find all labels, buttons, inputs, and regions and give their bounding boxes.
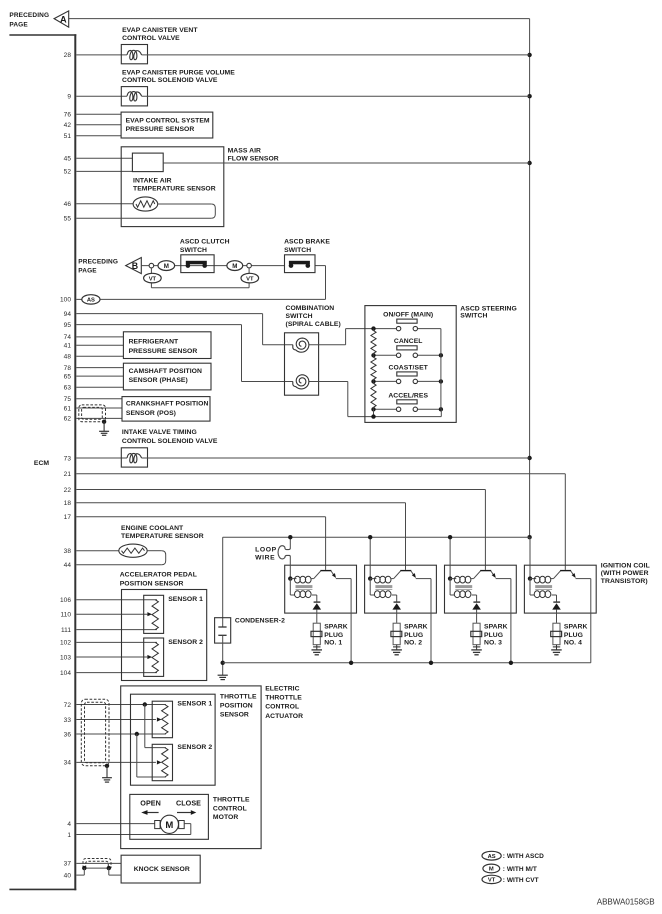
svg-text:ELECTRIC: ELECTRIC (265, 685, 299, 692)
svg-text:73: 73 (64, 455, 72, 462)
svg-text:22: 22 (64, 487, 72, 494)
svg-text:EVAP CONTROL SYSTEM: EVAP CONTROL SYSTEM (126, 118, 210, 125)
svg-text:THROTTLE: THROTTLE (220, 693, 257, 700)
svg-text:MASS AIR: MASS AIR (228, 147, 261, 154)
svg-text:SENSOR 2: SENSOR 2 (177, 744, 212, 751)
svg-text:17: 17 (64, 514, 72, 521)
svg-text:9: 9 (67, 94, 71, 101)
svg-text:46: 46 (64, 201, 72, 208)
svg-text:55: 55 (64, 215, 72, 222)
svg-text:M: M (489, 867, 494, 873)
svg-text:EVAP CANISTER VENT: EVAP CANISTER VENT (122, 27, 198, 34)
svg-text:COAST/SET: COAST/SET (389, 365, 429, 372)
svg-text:28: 28 (64, 52, 72, 59)
svg-text:CONDENSER-2: CONDENSER-2 (235, 618, 285, 625)
svg-text:ASCD BRAKE: ASCD BRAKE (284, 239, 330, 246)
svg-text:78: 78 (64, 365, 72, 372)
svg-text:TEMPERATURE SENSOR: TEMPERATURE SENSOR (133, 186, 216, 193)
svg-text:SWITCH: SWITCH (286, 313, 313, 320)
svg-text:CONTROL VALVE: CONTROL VALVE (122, 35, 180, 42)
svg-text:PRECEDING: PRECEDING (9, 12, 49, 19)
svg-text:CAMSHAFT POSITION: CAMSHAFT POSITION (129, 368, 202, 375)
svg-text:ABBWA0158GB: ABBWA0158GB (597, 898, 655, 907)
svg-text:37: 37 (64, 861, 72, 868)
svg-text:52: 52 (64, 169, 72, 176)
svg-text:65: 65 (64, 373, 72, 380)
svg-text:B: B (132, 261, 138, 271)
svg-text:76: 76 (64, 112, 72, 119)
svg-text:SPARK: SPARK (404, 623, 428, 630)
svg-text:PRECEDING: PRECEDING (78, 259, 118, 266)
svg-text:TEMPERATURE SENSOR: TEMPERATURE SENSOR (121, 533, 204, 540)
svg-text:95: 95 (64, 322, 72, 329)
svg-text:TRANSISTOR): TRANSISTOR) (601, 578, 648, 585)
svg-text:SPARK: SPARK (564, 623, 588, 630)
svg-text:AS: AS (488, 854, 496, 860)
svg-text:PLUG: PLUG (484, 632, 503, 639)
svg-text:103: 103 (60, 654, 71, 661)
svg-text:ACCELERATOR PEDAL: ACCELERATOR PEDAL (120, 571, 197, 578)
svg-text:ECM: ECM (34, 460, 50, 467)
svg-text:110: 110 (60, 612, 71, 619)
svg-text:AS: AS (87, 298, 95, 304)
svg-text:(WITH POWER: (WITH POWER (601, 570, 649, 577)
svg-text:1: 1 (67, 832, 71, 839)
svg-text:ASCD STEERING: ASCD STEERING (460, 305, 517, 312)
svg-text:SPARK: SPARK (324, 623, 348, 630)
svg-text:106: 106 (60, 597, 71, 604)
svg-text:51: 51 (64, 133, 72, 140)
svg-text:SENSOR 1: SENSOR 1 (177, 700, 212, 707)
svg-text:36: 36 (64, 731, 72, 738)
svg-text:VT: VT (488, 878, 496, 884)
svg-text:SWITCH: SWITCH (460, 313, 487, 320)
svg-text:M: M (164, 263, 169, 270)
svg-text:A: A (60, 14, 67, 24)
svg-text:CONTROL SOLENOID VALVE: CONTROL SOLENOID VALVE (122, 438, 218, 445)
svg-text:COMBINATION: COMBINATION (286, 305, 335, 312)
svg-text:INTAKE AIR: INTAKE AIR (133, 178, 172, 185)
svg-text:38: 38 (64, 548, 72, 555)
svg-text:ACCEL/RES: ACCEL/RES (388, 393, 428, 400)
svg-text:4: 4 (67, 821, 71, 828)
svg-text:18: 18 (64, 500, 72, 507)
svg-text:: WITH CVT: : WITH CVT (503, 877, 539, 884)
svg-text:PLUG: PLUG (324, 632, 343, 639)
svg-text:WIRE: WIRE (255, 555, 275, 562)
svg-text:72: 72 (64, 702, 72, 709)
svg-text:74: 74 (64, 334, 72, 341)
svg-text:(SPIRAL CABLE): (SPIRAL CABLE) (286, 321, 341, 328)
svg-text:45: 45 (64, 156, 72, 163)
svg-text:SENSOR 2: SENSOR 2 (168, 639, 203, 646)
svg-text:42: 42 (64, 122, 72, 129)
svg-text:NO. 3: NO. 3 (484, 640, 502, 647)
svg-text:M: M (165, 820, 173, 831)
svg-text:104: 104 (60, 670, 71, 677)
svg-text:LOOP: LOOP (255, 547, 277, 554)
svg-text:40: 40 (64, 872, 72, 879)
svg-text:MOTOR: MOTOR (213, 814, 238, 821)
svg-text:THROTTLE: THROTTLE (213, 797, 250, 804)
svg-text:SPARK: SPARK (484, 623, 508, 630)
svg-text:SENSOR (PHASE): SENSOR (PHASE) (129, 377, 188, 384)
svg-text:OPEN: OPEN (140, 798, 161, 807)
svg-text:21: 21 (64, 471, 72, 478)
svg-text:ENGINE COOLANT: ENGINE COOLANT (121, 525, 184, 532)
svg-text:PAGE: PAGE (78, 268, 97, 275)
svg-text:PLUG: PLUG (404, 632, 423, 639)
svg-text:INTAKE VALVE TIMING: INTAKE VALVE TIMING (122, 429, 197, 436)
svg-text:33: 33 (64, 717, 72, 724)
svg-text:94: 94 (64, 311, 72, 318)
svg-text:: WITH M/T: : WITH M/T (503, 866, 537, 873)
svg-text:REFRIGERANT: REFRIGERANT (129, 339, 179, 346)
svg-text:CANCEL: CANCEL (394, 338, 423, 345)
svg-text:POSITION SENSOR: POSITION SENSOR (120, 580, 184, 587)
svg-text:63: 63 (64, 385, 72, 392)
svg-text:41: 41 (64, 343, 72, 350)
svg-text:CONTROL: CONTROL (265, 704, 299, 711)
svg-text:EVAP CANISTER PURGE VOLUME: EVAP CANISTER PURGE VOLUME (122, 69, 235, 76)
svg-text:100: 100 (60, 297, 71, 304)
svg-text:SWITCH: SWITCH (180, 247, 207, 254)
svg-text:THROTTLE: THROTTLE (265, 695, 302, 702)
svg-text:ON/OFF (MAIN): ON/OFF (MAIN) (383, 311, 433, 318)
svg-text:PAGE: PAGE (9, 21, 28, 28)
svg-text:SENSOR (POS): SENSOR (POS) (126, 410, 176, 417)
svg-text:VT: VT (149, 276, 157, 282)
svg-text:48: 48 (64, 354, 72, 361)
svg-text:NO. 1: NO. 1 (324, 640, 342, 647)
svg-text:CONTROL SOLENOID VALVE: CONTROL SOLENOID VALVE (122, 77, 218, 84)
svg-text:111: 111 (61, 627, 71, 634)
svg-text:KNOCK SENSOR: KNOCK SENSOR (134, 866, 190, 873)
svg-text:PRESSURE SENSOR: PRESSURE SENSOR (126, 126, 195, 133)
svg-text:SENSOR: SENSOR (220, 712, 249, 719)
svg-text:IGNITION COIL: IGNITION COIL (601, 563, 650, 570)
svg-text:102: 102 (60, 640, 71, 647)
svg-text:CRANKSHAFT POSITION: CRANKSHAFT POSITION (126, 401, 209, 408)
svg-text:62: 62 (64, 416, 72, 423)
svg-text:: WITH ASCD: : WITH ASCD (503, 853, 544, 860)
svg-text:ASCD CLUTCH: ASCD CLUTCH (180, 239, 230, 246)
svg-text:NO. 4: NO. 4 (564, 640, 582, 647)
svg-text:CLOSE: CLOSE (176, 798, 201, 807)
svg-text:44: 44 (64, 562, 72, 569)
svg-text:SENSOR 1: SENSOR 1 (168, 596, 203, 603)
svg-text:34: 34 (64, 760, 72, 767)
svg-text:75: 75 (64, 396, 72, 403)
svg-text:ACTUATOR: ACTUATOR (265, 713, 303, 720)
svg-text:VT: VT (246, 276, 254, 282)
svg-text:CONTROL: CONTROL (213, 805, 247, 812)
svg-text:PRESSURE SENSOR: PRESSURE SENSOR (129, 348, 198, 355)
svg-text:61: 61 (64, 405, 72, 412)
svg-text:M: M (232, 263, 237, 270)
svg-text:SWITCH: SWITCH (284, 247, 311, 254)
svg-text:PLUG: PLUG (564, 632, 583, 639)
svg-text:FLOW SENSOR: FLOW SENSOR (228, 155, 279, 162)
svg-text:POSITION: POSITION (220, 702, 253, 709)
svg-text:NO. 2: NO. 2 (404, 640, 422, 647)
